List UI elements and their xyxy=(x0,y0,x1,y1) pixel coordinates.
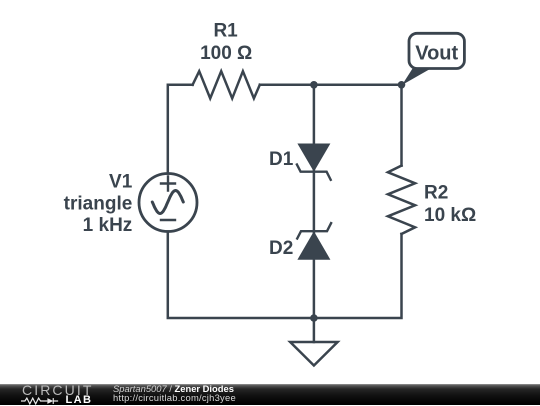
zener diode D2 triangle xyxy=(297,231,330,260)
V1 plus sign xyxy=(161,177,175,191)
footer bar xyxy=(0,384,540,405)
ground stub wire xyxy=(313,318,316,342)
svg-text:10 kΩ: 10 kΩ xyxy=(424,205,476,226)
circuitlab logo text LAB xyxy=(66,395,93,405)
Vout callout tail xyxy=(402,67,434,85)
V1 minus sign xyxy=(161,219,175,221)
svg-text:D2: D2 xyxy=(269,238,293,259)
wire right branch: R2 bottom to bottom-right corner xyxy=(314,234,402,318)
wire left branch: V1 top to top-left corner xyxy=(168,85,193,174)
svg-text:1 kHz: 1 kHz xyxy=(83,215,133,236)
wire top: R1 to Vout node xyxy=(260,84,402,87)
Vout callout box xyxy=(409,33,464,68)
zener diode D1 cathode bar xyxy=(297,165,331,180)
V1 sine squiggle xyxy=(152,191,183,214)
attribution text xyxy=(113,385,236,403)
junction node at D1 branch top xyxy=(310,81,318,89)
resistor R2 zigzag xyxy=(388,166,415,234)
svg-text:triangle: triangle xyxy=(64,193,133,214)
svg-text:R2: R2 xyxy=(424,183,448,204)
junction node at ground xyxy=(310,314,318,322)
junction node at Vout xyxy=(398,81,406,89)
circuitlab logo resistor-diode glyph xyxy=(21,397,64,405)
wire right branch: node to R2 top xyxy=(400,85,403,166)
svg-text:100 Ω: 100 Ω xyxy=(200,43,252,64)
zener diode D1 triangle xyxy=(297,144,330,172)
resistor R1 zigzag xyxy=(193,71,260,98)
wire middle branch: top node through diodes to bottom xyxy=(313,85,316,318)
svg-text:R1: R1 xyxy=(213,21,238,42)
svg-text:V1: V1 xyxy=(109,172,133,193)
zener diode D2 cathode bar xyxy=(297,223,331,238)
svg-text:Vout: Vout xyxy=(415,43,458,65)
wire bottom: ground node to bottom-left corner and up to V1 xyxy=(168,232,314,319)
voltage source V1 circle xyxy=(139,174,197,232)
ground symbol xyxy=(290,342,337,366)
circuitlab logo text CIRCUIT xyxy=(22,385,93,396)
svg-text:D1: D1 xyxy=(269,149,294,170)
